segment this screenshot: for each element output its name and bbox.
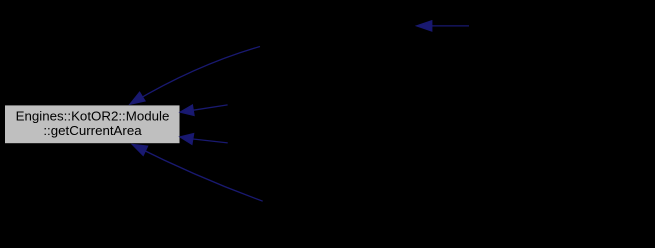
arrowhead A: [130, 92, 146, 104]
edge D: curve from bottom hidden caller: [134, 146, 263, 202]
arrowhead E: [416, 21, 432, 32]
arrowhead B: [180, 105, 194, 116]
node box Engines::KotOR2::Module::getCurrentArea: [5, 105, 181, 144]
edge B: straight from right hidden caller 1: [193, 105, 227, 110]
arrowhead C: [180, 133, 194, 144]
svg-text:Engines::KotOR2::Module: Engines::KotOR2::Module: [16, 109, 170, 124]
edge E: standalone arrow between hidden callers top right: [432, 25, 469, 27]
arrowhead D: [132, 144, 148, 155]
edge A: curve from top hidden caller: [133, 47, 260, 103]
edge C: straight from right hidden caller 2: [193, 139, 228, 143]
svg-text:::getCurrentArea: ::getCurrentArea: [43, 123, 142, 138]
